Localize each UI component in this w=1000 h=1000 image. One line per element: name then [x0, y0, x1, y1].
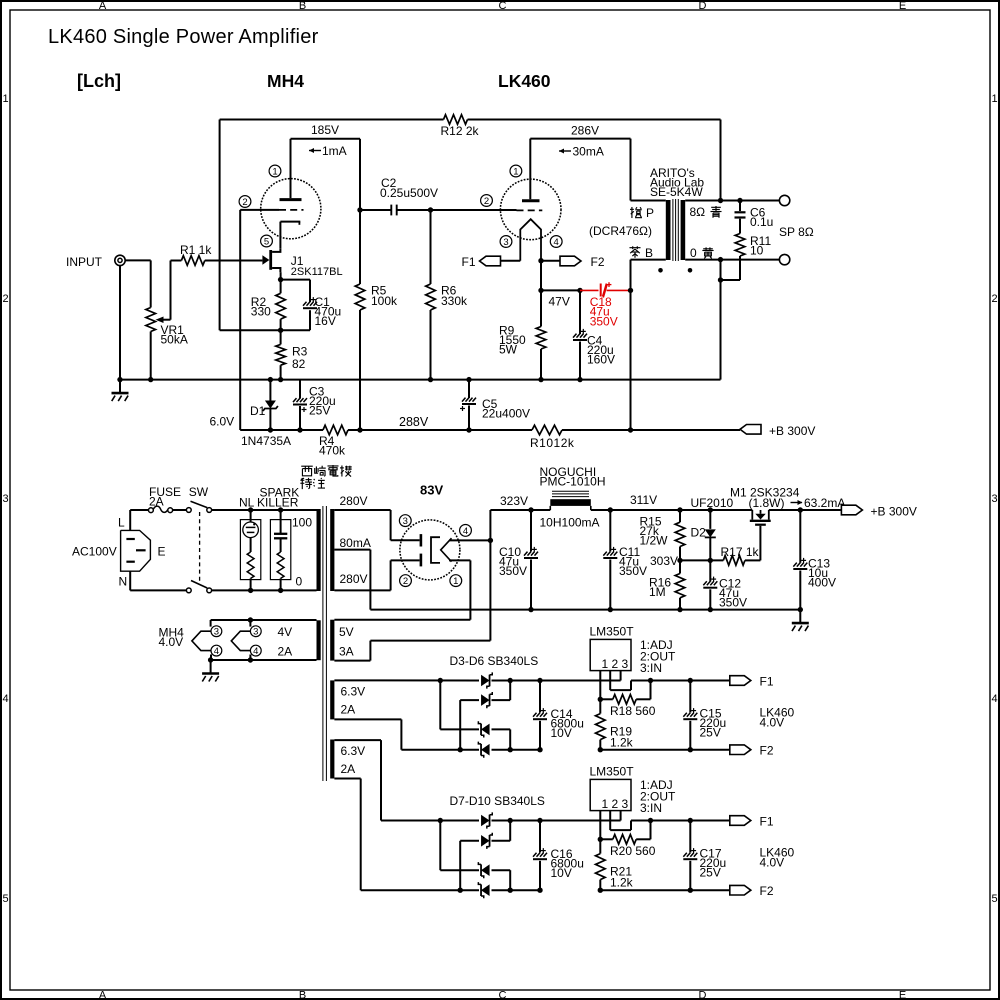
svg-text:LK460 Single Power Amplifier: LK460 Single Power Amplifier — [48, 26, 319, 48]
label R10 12k — [530, 436, 575, 450]
svg-text:R12 2k: R12 2k — [441, 124, 480, 138]
flag F1 out block1 — [730, 676, 751, 686]
pin 1 V2 — [510, 165, 522, 177]
resistor R9 — [536, 290, 546, 379]
svg-text:A: A — [99, 0, 107, 12]
label R17 1k — [721, 545, 760, 559]
svg-text:(1.8W): (1.8W) — [749, 496, 785, 510]
svg-text:6.0V: 6.0V — [210, 415, 235, 429]
label C5 22u400V — [482, 397, 530, 421]
svg-text:2A: 2A — [341, 762, 356, 776]
label R4 470k — [319, 434, 346, 458]
label AC100V — [72, 545, 117, 559]
label C4 220u 160V — [587, 334, 615, 367]
junction 0V bus end — [798, 607, 803, 612]
transformer T2 phase dot primary — [658, 268, 663, 273]
label SP 8ohm — [779, 225, 814, 239]
wire R17 to M1 gate — [745, 526, 761, 561]
wire pin1 adj block1 — [599, 671, 601, 700]
ac inlet body — [121, 530, 151, 571]
diode D8 block2 — [460, 821, 510, 891]
svg-text:2A: 2A — [341, 703, 356, 717]
label 83V — [420, 483, 443, 498]
flag F1 filament left — [480, 256, 521, 266]
svg-text:+B 300V: +B 300V — [769, 424, 815, 438]
label LM350T block2 — [590, 764, 635, 778]
svg-text:R17 1k: R17 1k — [721, 545, 760, 559]
wire HV center tap — [334, 550, 370, 610]
label 303V — [650, 554, 678, 568]
label NL — [239, 496, 255, 510]
junction C11 — [608, 507, 613, 612]
label R6 330k — [441, 284, 468, 309]
transformer T2 primary winding — [666, 200, 671, 260]
pin 1 V3 — [450, 575, 462, 587]
tube V2 LK460 envelope — [500, 179, 561, 240]
tube V3 plate 2 — [420, 554, 423, 567]
input jack J — [115, 255, 125, 265]
svg-text:AC100V: AC100V — [72, 545, 117, 559]
resistor R17 — [723, 556, 745, 566]
wire 6.3V-1 top to bridge — [334, 679, 479, 681]
title LK460 Single Power Amplifier — [48, 26, 319, 48]
svg-text:R18 560: R18 560 — [610, 704, 656, 718]
svg-text:10V: 10V — [551, 726, 572, 740]
svg-text:1/2W: 1/2W — [640, 534, 669, 548]
wire 6.3V-1 bottom to bridge — [334, 719, 479, 749]
choke L1 — [531, 491, 591, 510]
wire F1 rail in block2 — [540, 811, 621, 821]
label 280V top — [340, 494, 368, 508]
frame zone number 3 right — [991, 493, 997, 505]
terminal SP minus — [779, 254, 789, 264]
ac inlet prong E — [136, 549, 146, 551]
transformer T1 HV winding — [330, 509, 334, 591]
junction bridge top left block2 — [438, 818, 443, 823]
tube V2 grid — [517, 209, 543, 211]
label pins 1 2 3 block2 — [602, 797, 629, 811]
resistor R16 — [675, 560, 685, 609]
label FUSE 2A — [149, 485, 181, 509]
resistor R6 — [426, 210, 436, 380]
frame zone letter E bottom — [899, 990, 906, 1000]
svg-text:400V: 400V — [808, 576, 836, 590]
flag F1 out block2 — [730, 816, 751, 826]
svg-text:1: 1 — [453, 576, 458, 587]
svg-text:R1012k: R1012k — [530, 436, 575, 450]
svg-text:330k: 330k — [441, 294, 468, 308]
tube V3 plate 1 — [420, 534, 423, 546]
junction J1 source node — [278, 277, 283, 282]
label 80mA — [340, 536, 371, 550]
wire cathode node to C4 node — [541, 289, 580, 291]
svg-text:SE-5K4W: SE-5K4W — [650, 185, 703, 199]
label F1 out block1 — [760, 674, 774, 688]
junction 288V R5 — [357, 427, 362, 432]
transformer T2 primary wire B — [631, 260, 666, 430]
frame zone letter B top — [299, 0, 306, 12]
junction pin4 node — [488, 538, 493, 543]
resistor R18 block1 — [600, 681, 650, 705]
label R1 1k — [180, 243, 212, 257]
diode D10 block2 — [478, 882, 489, 898]
junction bridge top right block2 — [508, 818, 513, 823]
label 4V 2A heater — [278, 625, 293, 659]
capacitor C3 — [293, 380, 307, 430]
svg-text:UF2010: UF2010 — [691, 496, 734, 510]
junction 288V C5 — [466, 427, 471, 432]
junction C2 R6 node — [428, 207, 433, 212]
wire ac line bottom — [212, 589, 317, 591]
svg-text:2A: 2A — [278, 645, 293, 659]
label INPUT — [66, 255, 103, 269]
wire 5V bottom to 323V riser — [334, 510, 531, 661]
junction R18 top block1 — [648, 678, 653, 683]
svg-text:4V: 4V — [278, 625, 293, 639]
resistor R4 — [323, 425, 348, 435]
label D7-D10 SB340LS block2 — [450, 794, 545, 808]
svg-text:4.0V: 4.0V — [159, 635, 184, 649]
svg-text:(DCR476Ω): (DCR476Ω) — [589, 224, 652, 238]
capacitor C16 block2 — [533, 821, 547, 891]
label tap 8ohm blue — [690, 205, 722, 219]
junction C15 block1 — [688, 678, 693, 753]
capacitor C14 block1 — [533, 681, 547, 750]
junction bias D1 — [268, 427, 303, 432]
transformer T2 phase dot secondary — [688, 268, 693, 273]
capacitor C13 — [793, 510, 807, 610]
svg-text:MH4: MH4 — [267, 71, 304, 91]
junction R21 bottom block2 — [598, 888, 603, 893]
svg-text:350V: 350V — [499, 564, 527, 578]
junction secondary top feedback — [718, 198, 723, 203]
svg-text:6.3V: 6.3V — [341, 685, 366, 699]
diode D7 block2 — [481, 812, 492, 828]
pin 2 V2 — [481, 195, 493, 207]
flag +B 300V output — [841, 505, 862, 515]
tube V3 filament — [431, 537, 452, 563]
label R15 27k 1/2W — [640, 515, 669, 548]
wire VR1 wiper to R1 — [164, 261, 182, 320]
capacitor C11 — [603, 510, 617, 610]
svg-text:R20 560: R20 560 — [610, 844, 656, 858]
svg-text:280V: 280V — [340, 572, 368, 586]
svg-text:LK460: LK460 — [498, 71, 551, 91]
label C11 47u 350V — [619, 545, 647, 578]
svg-text:4.0V: 4.0V — [760, 716, 785, 730]
svg-text:30mA: 30mA — [573, 145, 604, 159]
svg-text:4: 4 — [463, 526, 468, 537]
wire pin2 out jog block1 — [610, 671, 631, 691]
flag +B 300V left — [740, 425, 761, 435]
label 280V bottom — [340, 572, 368, 586]
label C13 10u 400V — [808, 557, 836, 590]
wire filament to cathode node — [540, 261, 542, 291]
wire fuse to switch — [172, 509, 186, 511]
frame zone number 5 right — [991, 893, 997, 905]
svg-text:1: 1 — [513, 166, 518, 177]
wire ac line top — [212, 509, 317, 511]
frame zone number 3 left — [2, 493, 8, 505]
frame zone letter A top — [99, 0, 107, 12]
label N — [119, 575, 128, 589]
transformer T2 primary wire P — [631, 200, 666, 202]
frame zone number 1 left — [2, 93, 8, 105]
label 286V — [571, 124, 599, 138]
label R3 82 — [292, 345, 308, 372]
junction C6 top — [737, 198, 742, 203]
svg-text:350V: 350V — [619, 564, 647, 578]
junction spark killer taps — [278, 507, 283, 593]
tube V1 grid — [279, 209, 304, 211]
tube V1 MH4 envelope — [261, 179, 321, 239]
terminal SP plus — [779, 195, 789, 205]
junction ground bus R6 C5 — [428, 377, 472, 382]
svg-text:286V: 286V — [571, 124, 599, 138]
svg-text:+B 300V: +B 300V — [871, 505, 917, 519]
connector pin 3 left — [211, 626, 222, 638]
junction filament right F2 — [538, 258, 543, 263]
svg-text:B: B — [645, 246, 653, 260]
svg-text:82: 82 — [292, 357, 306, 371]
junction R15 top — [677, 507, 682, 512]
svg-text:A: A — [99, 990, 107, 1000]
regulator U LM350T block1 — [590, 639, 631, 670]
svg-text:F2: F2 — [591, 255, 605, 269]
svg-text:10H100mA: 10H100mA — [540, 516, 600, 530]
capacitor C10 — [524, 510, 538, 610]
junction 4V bottom — [208, 657, 253, 662]
wire M1 source to +B flag — [769, 509, 841, 511]
label LK460 4.0V block2 — [760, 846, 795, 870]
svg-text:L: L — [118, 516, 125, 530]
label D3-D6 SB340LS block1 — [450, 654, 539, 668]
label C17 220u 25V block2 — [700, 847, 727, 880]
svg-text:10: 10 — [750, 244, 764, 258]
svg-text:25V: 25V — [309, 404, 330, 418]
frame zone letter D top — [699, 0, 707, 12]
label C6 0.1u — [750, 206, 773, 230]
label C1 470u 16V — [315, 295, 342, 328]
label R16 1M — [649, 576, 671, 600]
svg-text:1mA: 1mA — [322, 144, 347, 158]
svg-text:E: E — [158, 545, 166, 559]
label C10 47u 350V — [499, 545, 527, 578]
tube V1 cathode — [280, 222, 300, 249]
svg-text:22u400V: 22u400V — [482, 407, 530, 421]
label pin names block1 — [640, 638, 676, 675]
junction bridge bottom block2 — [458, 888, 513, 893]
connector plug chevron left — [192, 631, 211, 650]
svg-text:C: C — [499, 990, 507, 1000]
frame zone letter E top — [899, 0, 906, 12]
label LK460 heading — [498, 71, 551, 91]
resistor R12 — [444, 115, 468, 125]
frame zone number 5 left — [2, 893, 8, 905]
junction C16 block2 — [537, 818, 542, 893]
label C12 47u 350V — [719, 577, 747, 610]
label VR1 50kA — [161, 323, 188, 347]
junction C12 bottom — [708, 607, 713, 612]
svg-text:0: 0 — [296, 575, 303, 589]
label 323V — [500, 494, 528, 508]
label M1 2SK3234 — [730, 486, 800, 500]
resistor R2 — [276, 280, 286, 331]
transistor J1 gate arrow — [262, 255, 269, 265]
svg-text:E: E — [899, 0, 906, 12]
junction C17 block2 — [688, 818, 693, 893]
wire 4V bottom rail — [211, 655, 317, 661]
wire 4V top rail — [211, 620, 317, 627]
resistor R1 — [181, 256, 204, 266]
pin 3 V3 — [399, 515, 411, 527]
wire pin2 out jog block2 — [610, 811, 631, 831]
frame zone letter D bottom — [699, 990, 707, 1000]
wire VR1 bottom to ground bus — [150, 332, 152, 380]
label tap brown B — [629, 246, 653, 260]
wire bias 288V line — [240, 429, 740, 431]
svg-text:[Lch]: [Lch] — [77, 71, 121, 91]
svg-text:83V: 83V — [420, 483, 443, 498]
label 288V — [399, 415, 429, 429]
junction 288V transformer B — [628, 427, 633, 432]
transistor J1 channel bar — [269, 250, 272, 270]
label F1 out block2 — [760, 814, 774, 828]
frame zone letter C top — [499, 0, 507, 12]
diode D2 UF2010 — [705, 510, 716, 560]
frame zone letter B bottom — [299, 990, 306, 1000]
svg-text:288V: 288V — [399, 415, 429, 429]
label 6.3V 2A first — [341, 685, 366, 717]
connector pin 4 right — [250, 645, 261, 657]
wire C2 node to LK460 grid — [431, 209, 517, 211]
label MH4 4.0V — [159, 626, 185, 650]
label arrow 30mA — [559, 145, 604, 159]
svg-text:D: D — [699, 0, 707, 12]
flag F2 filament right — [541, 256, 581, 266]
wire ground bus — [120, 379, 721, 381]
connector pin 3 right — [250, 626, 261, 638]
svg-text:5W: 5W — [499, 343, 518, 357]
wire F1 rail out block2 — [631, 820, 730, 822]
svg-text:E: E — [899, 990, 906, 1000]
junction C4 C18 node — [577, 288, 582, 293]
label R9 1550 5W — [499, 324, 526, 357]
ground symbol heater — [202, 660, 219, 682]
svg-text:2A: 2A — [149, 495, 164, 509]
label SPARK KILLER — [257, 486, 299, 510]
svg-text:4: 4 — [991, 693, 997, 705]
svg-text:2: 2 — [403, 576, 408, 587]
svg-text:F1: F1 — [760, 674, 774, 688]
svg-text:5V: 5V — [339, 625, 354, 639]
svg-text:5: 5 — [2, 893, 8, 905]
label NOGUCHI PMC-1010H — [540, 465, 606, 489]
wire HV top to plate — [334, 510, 419, 540]
switch SW top pole — [186, 501, 211, 512]
frame zone number 4 left — [2, 693, 8, 705]
svg-text:50kA: 50kA — [161, 333, 188, 347]
flag F2 out block1 — [730, 745, 751, 755]
pin 4 V3 — [460, 525, 472, 537]
switch gang dashed link — [199, 512, 201, 585]
svg-text:PMC-1010H: PMC-1010H — [540, 475, 606, 489]
pin 2 V3 — [400, 575, 412, 587]
svg-text:D: D — [699, 990, 707, 1000]
wire feedback rail right — [468, 120, 721, 201]
svg-text:R1 1k: R1 1k — [180, 243, 212, 257]
svg-text:SP 8Ω: SP 8Ω — [779, 225, 814, 239]
wire source node to C1 — [281, 280, 310, 302]
ac inlet prong N — [126, 561, 134, 563]
tube V3 83V envelope — [400, 520, 460, 580]
wire secondary top — [685, 200, 779, 202]
svg-text:1: 1 — [272, 166, 277, 177]
label C14 6800u 10V block1 — [551, 707, 584, 740]
tube V1 plate — [280, 198, 302, 201]
label R11 10 — [750, 234, 771, 258]
label nishizaki denki — [300, 465, 351, 489]
wire inlet N to switch — [130, 571, 186, 590]
svg-text:3: 3 — [403, 516, 408, 527]
svg-text:3: 3 — [503, 237, 508, 248]
transformer T1 6.3V winding 1 — [330, 680, 334, 719]
wire V3 pin4 output — [449, 539, 490, 541]
wire inlet L to fuse — [130, 510, 149, 530]
junction C14 block1 — [537, 678, 542, 753]
diode D3 block1 — [481, 672, 492, 688]
transformer T1 heater winding 4V — [317, 620, 321, 660]
svg-text:1 2 3: 1 2 3 — [602, 797, 629, 811]
svg-text:4: 4 — [554, 237, 559, 248]
spark killer assembly — [270, 510, 290, 590]
junction bridge bottom block1 — [458, 747, 513, 752]
wire HV bottom to plate — [334, 560, 419, 590]
switch SW bottom pole — [186, 581, 211, 593]
svg-text:470k: 470k — [319, 444, 346, 458]
wire bridge1 bottom mid — [492, 749, 541, 751]
svg-text:4: 4 — [2, 693, 8, 705]
svg-text:B: B — [299, 990, 306, 1000]
svg-text:47V: 47V — [549, 295, 570, 309]
pin 1 V1 — [269, 165, 281, 177]
pin 4 V2 — [550, 236, 562, 248]
svg-text:185V: 185V — [311, 123, 339, 137]
label DCR476 — [589, 224, 652, 238]
flag F2 out block2 — [730, 885, 751, 895]
label 10H100mA — [540, 516, 600, 530]
capacitor C4 — [573, 290, 587, 379]
frame zone number 2 right — [991, 293, 997, 305]
label R5 100k — [371, 284, 398, 309]
wire 303V node to R17 — [680, 559, 723, 561]
label tap 0 — [296, 575, 303, 589]
svg-text:2: 2 — [2, 293, 8, 305]
junction adj node block2 — [598, 837, 603, 842]
svg-text:2SK117BL: 2SK117BL — [291, 266, 343, 278]
svg-text:4.0V: 4.0V — [760, 856, 785, 870]
svg-text:3A: 3A — [339, 645, 354, 659]
resistor R10 — [532, 425, 562, 435]
label C18 47u 350V red — [590, 295, 618, 328]
svg-text:3: 3 — [253, 627, 258, 638]
label F2 out block2 — [760, 884, 774, 898]
resistor R3 — [276, 330, 286, 379]
wire F1 rail out block1 — [631, 680, 730, 682]
connector pin 4 left — [211, 645, 222, 657]
resistor R21 block2 — [596, 839, 606, 890]
ac inlet prong L — [126, 538, 134, 540]
